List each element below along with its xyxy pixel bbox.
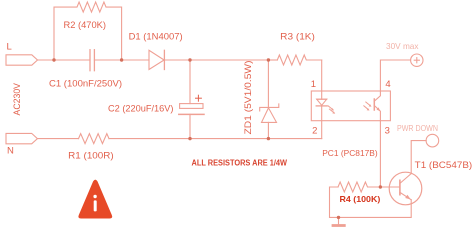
opto LED cathode bar bbox=[316, 105, 327, 107]
svg-text:C2 (220uF/16V): C2 (220uF/16V) bbox=[108, 103, 174, 114]
node R2-D1 junction bbox=[120, 58, 123, 61]
opto light arrows bbox=[364, 102, 371, 110]
capacitor C2 bbox=[179, 104, 204, 115]
svg-text:PWR DOWN: PWR DOWN bbox=[397, 124, 438, 133]
svg-text:PC1 (PC817B): PC1 (PC817B) bbox=[322, 148, 378, 158]
svg-text:ZD1 (5V1/0.5W): ZD1 (5V1/0.5W) bbox=[243, 61, 254, 135]
node C2 bottom junction bbox=[188, 137, 191, 140]
resistor R4 bbox=[338, 182, 380, 192]
svg-text:D1 (1N4007): D1 (1N4007) bbox=[129, 32, 183, 43]
svg-text:2: 2 bbox=[312, 125, 317, 136]
wire opto pin4 up bbox=[380, 60, 410, 91]
wire R4 left to ground loop bbox=[330, 187, 412, 217]
wire L line left bbox=[38, 59, 91, 61]
svg-text:R4 (100K): R4 (100K) bbox=[340, 194, 381, 204]
transistor T1 collector diagonal bbox=[400, 174, 411, 184]
wire L line mid bbox=[94, 59, 149, 61]
opto phototransistor emitter bbox=[374, 106, 380, 121]
opto LED anode line bbox=[317, 98, 327, 100]
opto phototransistor emitter arrowhead bbox=[377, 107, 381, 111]
wire L line right bbox=[164, 59, 268, 61]
wire collector to PWR DOWN bbox=[411, 141, 426, 174]
svg-text:R2 (470K): R2 (470K) bbox=[64, 20, 107, 31]
opto phototransistor base bar bbox=[373, 99, 375, 110]
resistor R1 bbox=[79, 134, 110, 144]
transistor T1 circle bbox=[389, 172, 422, 205]
svg-text:R1 (100R): R1 (100R) bbox=[68, 150, 114, 161]
opto LED triangle bbox=[317, 99, 327, 105]
transistor T1 emitter diagonal bbox=[400, 192, 411, 200]
ground bbox=[333, 217, 344, 225]
transistor T1 base bar bbox=[399, 180, 401, 194]
terminal 30V max plus bbox=[411, 54, 423, 66]
svg-text:4: 4 bbox=[385, 79, 390, 90]
opto LED emission arrows bbox=[328, 106, 334, 113]
wire opto pin1 bbox=[321, 60, 323, 99]
transistor T1 emitter arrowhead bbox=[405, 195, 411, 200]
node ground junction bbox=[337, 216, 340, 219]
node ZD1 top junction bbox=[267, 58, 270, 61]
svg-text:ALL RESISTORS ARE 1/4W: ALL RESISTORS ARE 1/4W bbox=[192, 159, 288, 168]
svg-text:N: N bbox=[7, 146, 14, 157]
terminal PWR DOWN circle bbox=[426, 134, 439, 147]
node ZD1 bottom junction bbox=[267, 137, 270, 140]
warning i stem bbox=[94, 200, 97, 211]
warning triangle icon bbox=[78, 180, 112, 219]
node C2 top junction bbox=[188, 58, 191, 61]
resistor R2 bbox=[54, 2, 122, 60]
wire ZD1 bottom lead bbox=[267, 122, 269, 138]
opto phototransistor collector bbox=[374, 91, 380, 101]
wire ZD1 top lead bbox=[267, 60, 269, 107]
wire C2 top lead bbox=[189, 60, 191, 104]
node L-R2 junction bbox=[52, 58, 55, 61]
svg-text:T1 (BC547B): T1 (BC547B) bbox=[415, 160, 473, 171]
svg-text:C1 (100nF/250V): C1 (100nF/250V) bbox=[49, 78, 122, 89]
wire N line right bbox=[109, 138, 322, 140]
svg-text:AC230V: AC230V bbox=[12, 83, 22, 116]
optocoupler PC1 body bbox=[311, 91, 390, 121]
wire N line left bbox=[37, 138, 78, 140]
warning i dot bbox=[93, 195, 96, 198]
svg-text:L: L bbox=[7, 42, 12, 53]
wire R3 lead left bbox=[268, 59, 277, 61]
wire opto pin3 down bbox=[379, 121, 381, 187]
diode D1 bbox=[149, 50, 164, 69]
terminal N bbox=[6, 133, 37, 143]
svg-text:30V max: 30V max bbox=[386, 41, 419, 51]
capacitor C1 bbox=[90, 50, 94, 71]
wire C2 bottom lead bbox=[189, 114, 191, 138]
C2 plus sign bbox=[196, 95, 202, 101]
wire opto pin2 to N line bbox=[321, 106, 323, 139]
node base junction bbox=[379, 185, 382, 188]
svg-text:R3 (1K): R3 (1K) bbox=[280, 31, 315, 42]
svg-text:3: 3 bbox=[385, 126, 390, 137]
terminal L bbox=[6, 55, 38, 65]
wire base line bbox=[380, 186, 400, 188]
svg-text:1: 1 bbox=[311, 79, 316, 90]
resistor R3 bbox=[277, 55, 321, 65]
zener ZD1 bbox=[260, 104, 279, 123]
